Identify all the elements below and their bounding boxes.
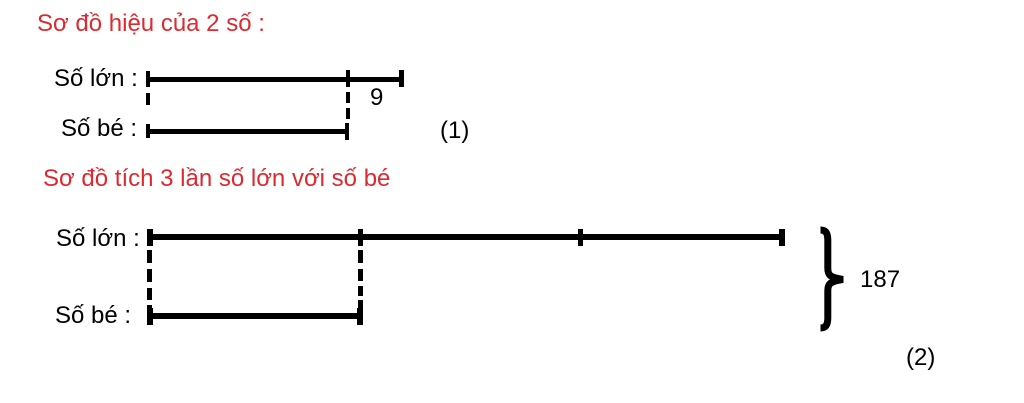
- dashed line left diagram1 (single dash): [146, 93, 150, 105]
- dashed line right diagram1 dash b: [346, 108, 350, 119]
- label: So be (diagram 2): [55, 304, 131, 328]
- title 1: [37, 12, 265, 36]
- tick middle bar1: [346, 70, 350, 87]
- title 2: [43, 167, 390, 191]
- tick start bar1: [146, 71, 150, 87]
- label: So be (diagram 1): [61, 117, 137, 141]
- label 9: [370, 86, 383, 110]
- bar 1 (So lon, diagram 1): [146, 77, 403, 82]
- curly brace: [818, 226, 844, 334]
- bar 3 (So lon, diagram 2): [147, 234, 784, 240]
- tick end bar2: [345, 123, 349, 140]
- tick end bar3: [779, 229, 785, 246]
- label (2): [906, 346, 935, 370]
- label: So lon (diagram 2): [56, 227, 140, 251]
- label: So lon (diagram 1): [54, 67, 138, 91]
- tick start bar3: [147, 229, 153, 246]
- dashed line right diagram2: [358, 250, 363, 263]
- tick 2/3 bar3: [578, 229, 583, 246]
- label (1): [440, 119, 469, 143]
- dashed line right diagram1 dash a: [346, 92, 350, 103]
- tick end bar1: [399, 70, 404, 87]
- dashed line left diagram2: [147, 250, 152, 263]
- tick start bar4: [147, 308, 153, 325]
- bar 4 (So be, diagram 2): [147, 313, 361, 319]
- bar 2 (So be, diagram 1): [146, 129, 349, 134]
- label 187: [860, 268, 900, 292]
- tick 1/3 bar3: [358, 229, 363, 246]
- tick end bar4: [357, 308, 363, 325]
- tick start bar2: [146, 124, 150, 138]
